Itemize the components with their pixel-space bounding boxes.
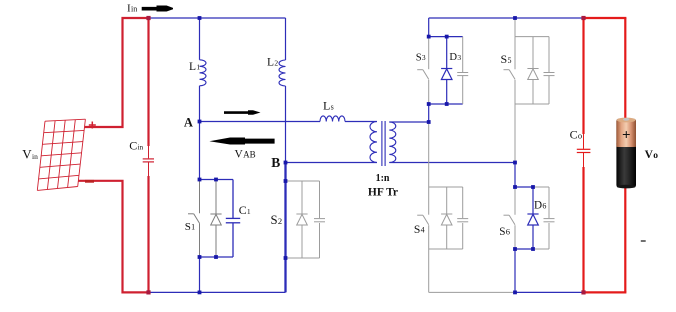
- svg-text:S1: S1: [185, 221, 195, 233]
- svg-text:L2: L2: [267, 57, 278, 69]
- svg-text:HF Tr: HF Tr: [368, 187, 398, 199]
- svg-text:L1: L1: [189, 61, 200, 73]
- svg-text:S2: S2: [271, 213, 283, 227]
- svg-text:D3: D3: [449, 52, 461, 63]
- svg-text:D6: D6: [534, 199, 546, 211]
- svg-text:Iin: Iin: [127, 2, 137, 14]
- svg-text:A: A: [184, 116, 193, 130]
- svg-text:B: B: [271, 155, 280, 170]
- svg-text:Co: Co: [570, 127, 583, 141]
- svg-text:+: +: [622, 128, 631, 144]
- svg-text:S6: S6: [499, 226, 510, 238]
- svg-text:Vo: Vo: [645, 149, 659, 161]
- svg-text:S3: S3: [416, 52, 426, 63]
- svg-text:S4: S4: [414, 223, 425, 236]
- svg-text:1:n: 1:n: [376, 173, 390, 184]
- svg-text:VAB: VAB: [235, 149, 256, 161]
